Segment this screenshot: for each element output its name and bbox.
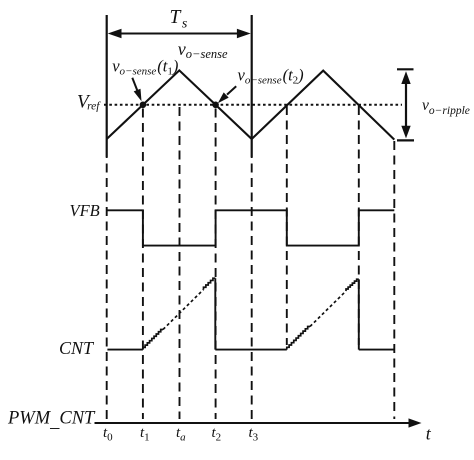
dashed vertical line ta [179,107,181,419]
arrow to sample dot t1 [132,78,141,102]
tick label t2 [212,425,222,444]
dashed vertical line t1 [142,109,144,420]
Ts period double arrow [108,29,251,39]
triangle waveform v_o-sense [107,70,395,139]
CNT ramp 1 dotted middle [163,290,204,330]
CNT ramp 2 bottom stairs [287,327,310,350]
label t axis [426,423,432,443]
CNT drop 1 [214,278,216,349]
v_o-ripple measurement arrow [397,69,414,140]
tick label t0 [103,425,113,444]
tick label t3 [249,425,259,444]
dashed vertical line at second rising crossing [286,106,288,345]
CNT ramp 2 dotted middle [310,291,346,327]
svg-text:CNT: CNT [59,338,95,358]
label v_o-sense(t1) [112,57,178,78]
dashed vertical line at second falling crossing [358,106,360,345]
label v_o-sense (top) [178,39,228,61]
dashed vertical line at waveform end [393,141,395,419]
label v_o-sense(t2) [238,66,304,87]
dashed vertical line t3 [251,157,253,419]
dashed vertical line t0 [106,157,108,419]
svg-text:PWM_CNT: PWM_CNT [7,409,96,432]
CNT baseline segment 3 [359,349,395,351]
sample dot at t1 [140,102,147,109]
label CNT [59,338,95,358]
Vref dotted reference line [104,104,402,106]
CNT ramp 1 bottom stairs [143,330,163,350]
vertical solid line at t0 [106,15,108,157]
label PWM_CNT [7,409,96,432]
CNT baseline segment 2 [215,349,286,351]
CNT baseline segment 1 [107,349,142,351]
VFB square waveform [107,210,395,245]
label VFB [70,201,100,220]
CNT ramp 2 top stairs [346,279,359,291]
vertical solid line at t3 [251,15,253,157]
label Ts [170,7,188,32]
sample dot at t2 [212,102,219,109]
label v_o-ripple [422,97,470,117]
CNT drop 2 [358,279,360,349]
tick label t1 [140,425,150,444]
label Vref [77,92,101,113]
svg-text:VFB: VFB [70,201,100,220]
time axis with arrow [95,418,422,427]
CNT ramp 1 top stairs [204,278,216,289]
dashed vertical line t2 [215,109,217,420]
arrow to sample dot t2 [218,86,236,103]
tick label ta [176,425,186,444]
